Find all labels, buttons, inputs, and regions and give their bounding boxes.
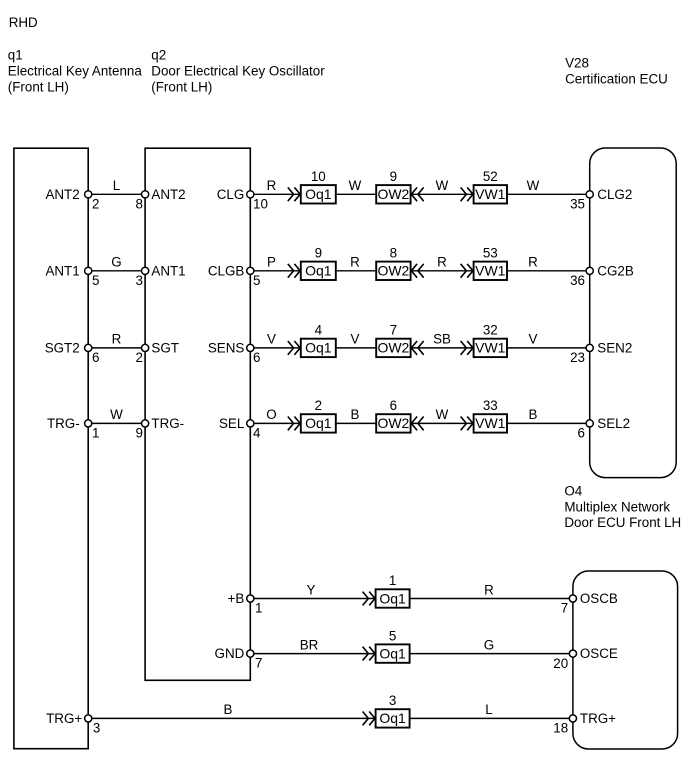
svg-text:+B: +B <box>228 591 245 606</box>
svg-text:W: W <box>349 178 362 193</box>
svg-text:ANT2: ANT2 <box>151 187 185 202</box>
svg-text:Multiplex Network: Multiplex Network <box>564 500 670 515</box>
svg-text:TRG+: TRG+ <box>46 711 82 726</box>
svg-text:V: V <box>351 332 360 347</box>
svg-text:(Front LH): (Front LH) <box>151 80 212 95</box>
svg-text:1: 1 <box>92 425 99 440</box>
svg-text:R: R <box>528 255 538 270</box>
svg-text:SGT: SGT <box>151 341 179 356</box>
svg-text:Oq1: Oq1 <box>305 415 332 431</box>
svg-text:VW1: VW1 <box>475 415 506 431</box>
svg-text:CLGB: CLGB <box>208 263 245 278</box>
svg-text:CLG2: CLG2 <box>597 187 632 202</box>
svg-text:V: V <box>529 332 538 347</box>
svg-text:TRG+: TRG+ <box>580 711 616 726</box>
svg-text:SGT2: SGT2 <box>45 341 80 356</box>
svg-text:W: W <box>436 178 449 193</box>
svg-text:1: 1 <box>389 573 396 588</box>
svg-text:2: 2 <box>92 196 99 211</box>
svg-text:Electrical Key Antenna: Electrical Key Antenna <box>8 64 143 79</box>
svg-text:10: 10 <box>311 169 326 184</box>
svg-text:6: 6 <box>390 398 397 413</box>
svg-text:53: 53 <box>483 246 498 261</box>
svg-text:5: 5 <box>253 273 260 288</box>
svg-text:SEL: SEL <box>219 416 244 431</box>
svg-text:3: 3 <box>93 720 100 735</box>
svg-text:TRG-: TRG- <box>151 416 184 431</box>
svg-text:W: W <box>436 407 449 422</box>
svg-text:O4: O4 <box>564 484 582 499</box>
svg-text:OW2: OW2 <box>377 415 409 431</box>
svg-text:SB: SB <box>433 332 451 347</box>
svg-text:ANT1: ANT1 <box>45 263 79 278</box>
svg-text:Door ECU Front LH: Door ECU Front LH <box>564 515 681 530</box>
svg-text:RHD: RHD <box>9 15 38 30</box>
svg-text:OW2: OW2 <box>377 186 409 202</box>
svg-text:18: 18 <box>553 721 568 736</box>
svg-text:Certification ECU: Certification ECU <box>565 72 668 87</box>
svg-text:Oq1: Oq1 <box>379 710 406 726</box>
svg-text:q1: q1 <box>8 48 23 63</box>
svg-text:2: 2 <box>135 350 142 365</box>
svg-text:36: 36 <box>570 273 585 288</box>
svg-text:V28: V28 <box>565 55 589 70</box>
svg-text:Oq1: Oq1 <box>305 263 332 279</box>
svg-text:R: R <box>350 255 360 270</box>
svg-text:B: B <box>224 702 233 717</box>
svg-text:VW1: VW1 <box>475 340 506 356</box>
svg-text:V: V <box>267 332 276 347</box>
svg-text:OSCB: OSCB <box>580 591 618 606</box>
svg-text:VW1: VW1 <box>475 186 506 202</box>
svg-text:ANT1: ANT1 <box>151 263 185 278</box>
svg-text:R: R <box>484 582 494 597</box>
svg-text:OSCE: OSCE <box>580 646 618 661</box>
svg-text:(Front LH): (Front LH) <box>8 80 69 95</box>
svg-text:ANT2: ANT2 <box>45 187 79 202</box>
svg-text:O: O <box>266 407 276 422</box>
svg-text:Oq1: Oq1 <box>305 340 332 356</box>
svg-text:SEL2: SEL2 <box>597 416 630 431</box>
svg-text:OW2: OW2 <box>377 263 409 279</box>
svg-text:TRG-: TRG- <box>47 416 80 431</box>
svg-text:3: 3 <box>389 693 396 708</box>
svg-text:9: 9 <box>135 425 142 440</box>
svg-text:CG2B: CG2B <box>597 263 634 278</box>
svg-text:G: G <box>484 637 494 652</box>
svg-text:L: L <box>113 178 120 193</box>
svg-text:SENS: SENS <box>208 341 245 356</box>
svg-text:52: 52 <box>483 169 498 184</box>
svg-text:3: 3 <box>135 273 142 288</box>
svg-text:Oq1: Oq1 <box>379 645 406 661</box>
svg-text:6: 6 <box>92 350 99 365</box>
svg-text:23: 23 <box>570 350 585 365</box>
svg-text:5: 5 <box>92 273 99 288</box>
svg-text:B: B <box>529 407 538 422</box>
svg-text:BR: BR <box>300 637 319 652</box>
svg-text:10: 10 <box>253 196 268 211</box>
svg-text:Door Electrical Key Oscillator: Door Electrical Key Oscillator <box>151 64 325 79</box>
svg-text:4: 4 <box>253 425 261 440</box>
svg-text:7: 7 <box>390 323 397 338</box>
svg-text:4: 4 <box>315 323 323 338</box>
svg-text:Oq1: Oq1 <box>379 590 406 606</box>
svg-text:5: 5 <box>389 628 396 643</box>
svg-text:Y: Y <box>307 582 316 597</box>
svg-text:33: 33 <box>483 398 498 413</box>
svg-text:W: W <box>110 407 123 422</box>
svg-text:B: B <box>351 407 360 422</box>
svg-text:GND: GND <box>215 646 245 661</box>
svg-text:q2: q2 <box>151 48 166 63</box>
svg-text:9: 9 <box>390 169 397 184</box>
svg-text:L: L <box>485 702 492 717</box>
svg-text:8: 8 <box>135 196 142 211</box>
svg-text:W: W <box>527 178 540 193</box>
svg-text:6: 6 <box>253 350 260 365</box>
svg-text:32: 32 <box>483 323 498 338</box>
svg-text:7: 7 <box>255 656 262 671</box>
svg-text:2: 2 <box>315 398 322 413</box>
svg-text:R: R <box>112 332 122 347</box>
svg-text:9: 9 <box>315 246 322 261</box>
svg-text:OW2: OW2 <box>377 340 409 356</box>
svg-text:CLG: CLG <box>217 187 245 202</box>
svg-text:VW1: VW1 <box>475 263 506 279</box>
svg-text:8: 8 <box>390 246 397 261</box>
svg-text:R: R <box>437 255 447 270</box>
svg-text:35: 35 <box>570 197 585 212</box>
svg-text:1: 1 <box>255 601 262 616</box>
svg-text:Oq1: Oq1 <box>305 186 332 202</box>
svg-text:SEN2: SEN2 <box>597 341 632 356</box>
svg-text:20: 20 <box>553 656 568 671</box>
svg-text:P: P <box>267 255 276 270</box>
svg-text:7: 7 <box>561 601 568 616</box>
svg-text:6: 6 <box>578 426 585 441</box>
svg-text:R: R <box>267 178 277 193</box>
svg-text:G: G <box>111 255 121 270</box>
